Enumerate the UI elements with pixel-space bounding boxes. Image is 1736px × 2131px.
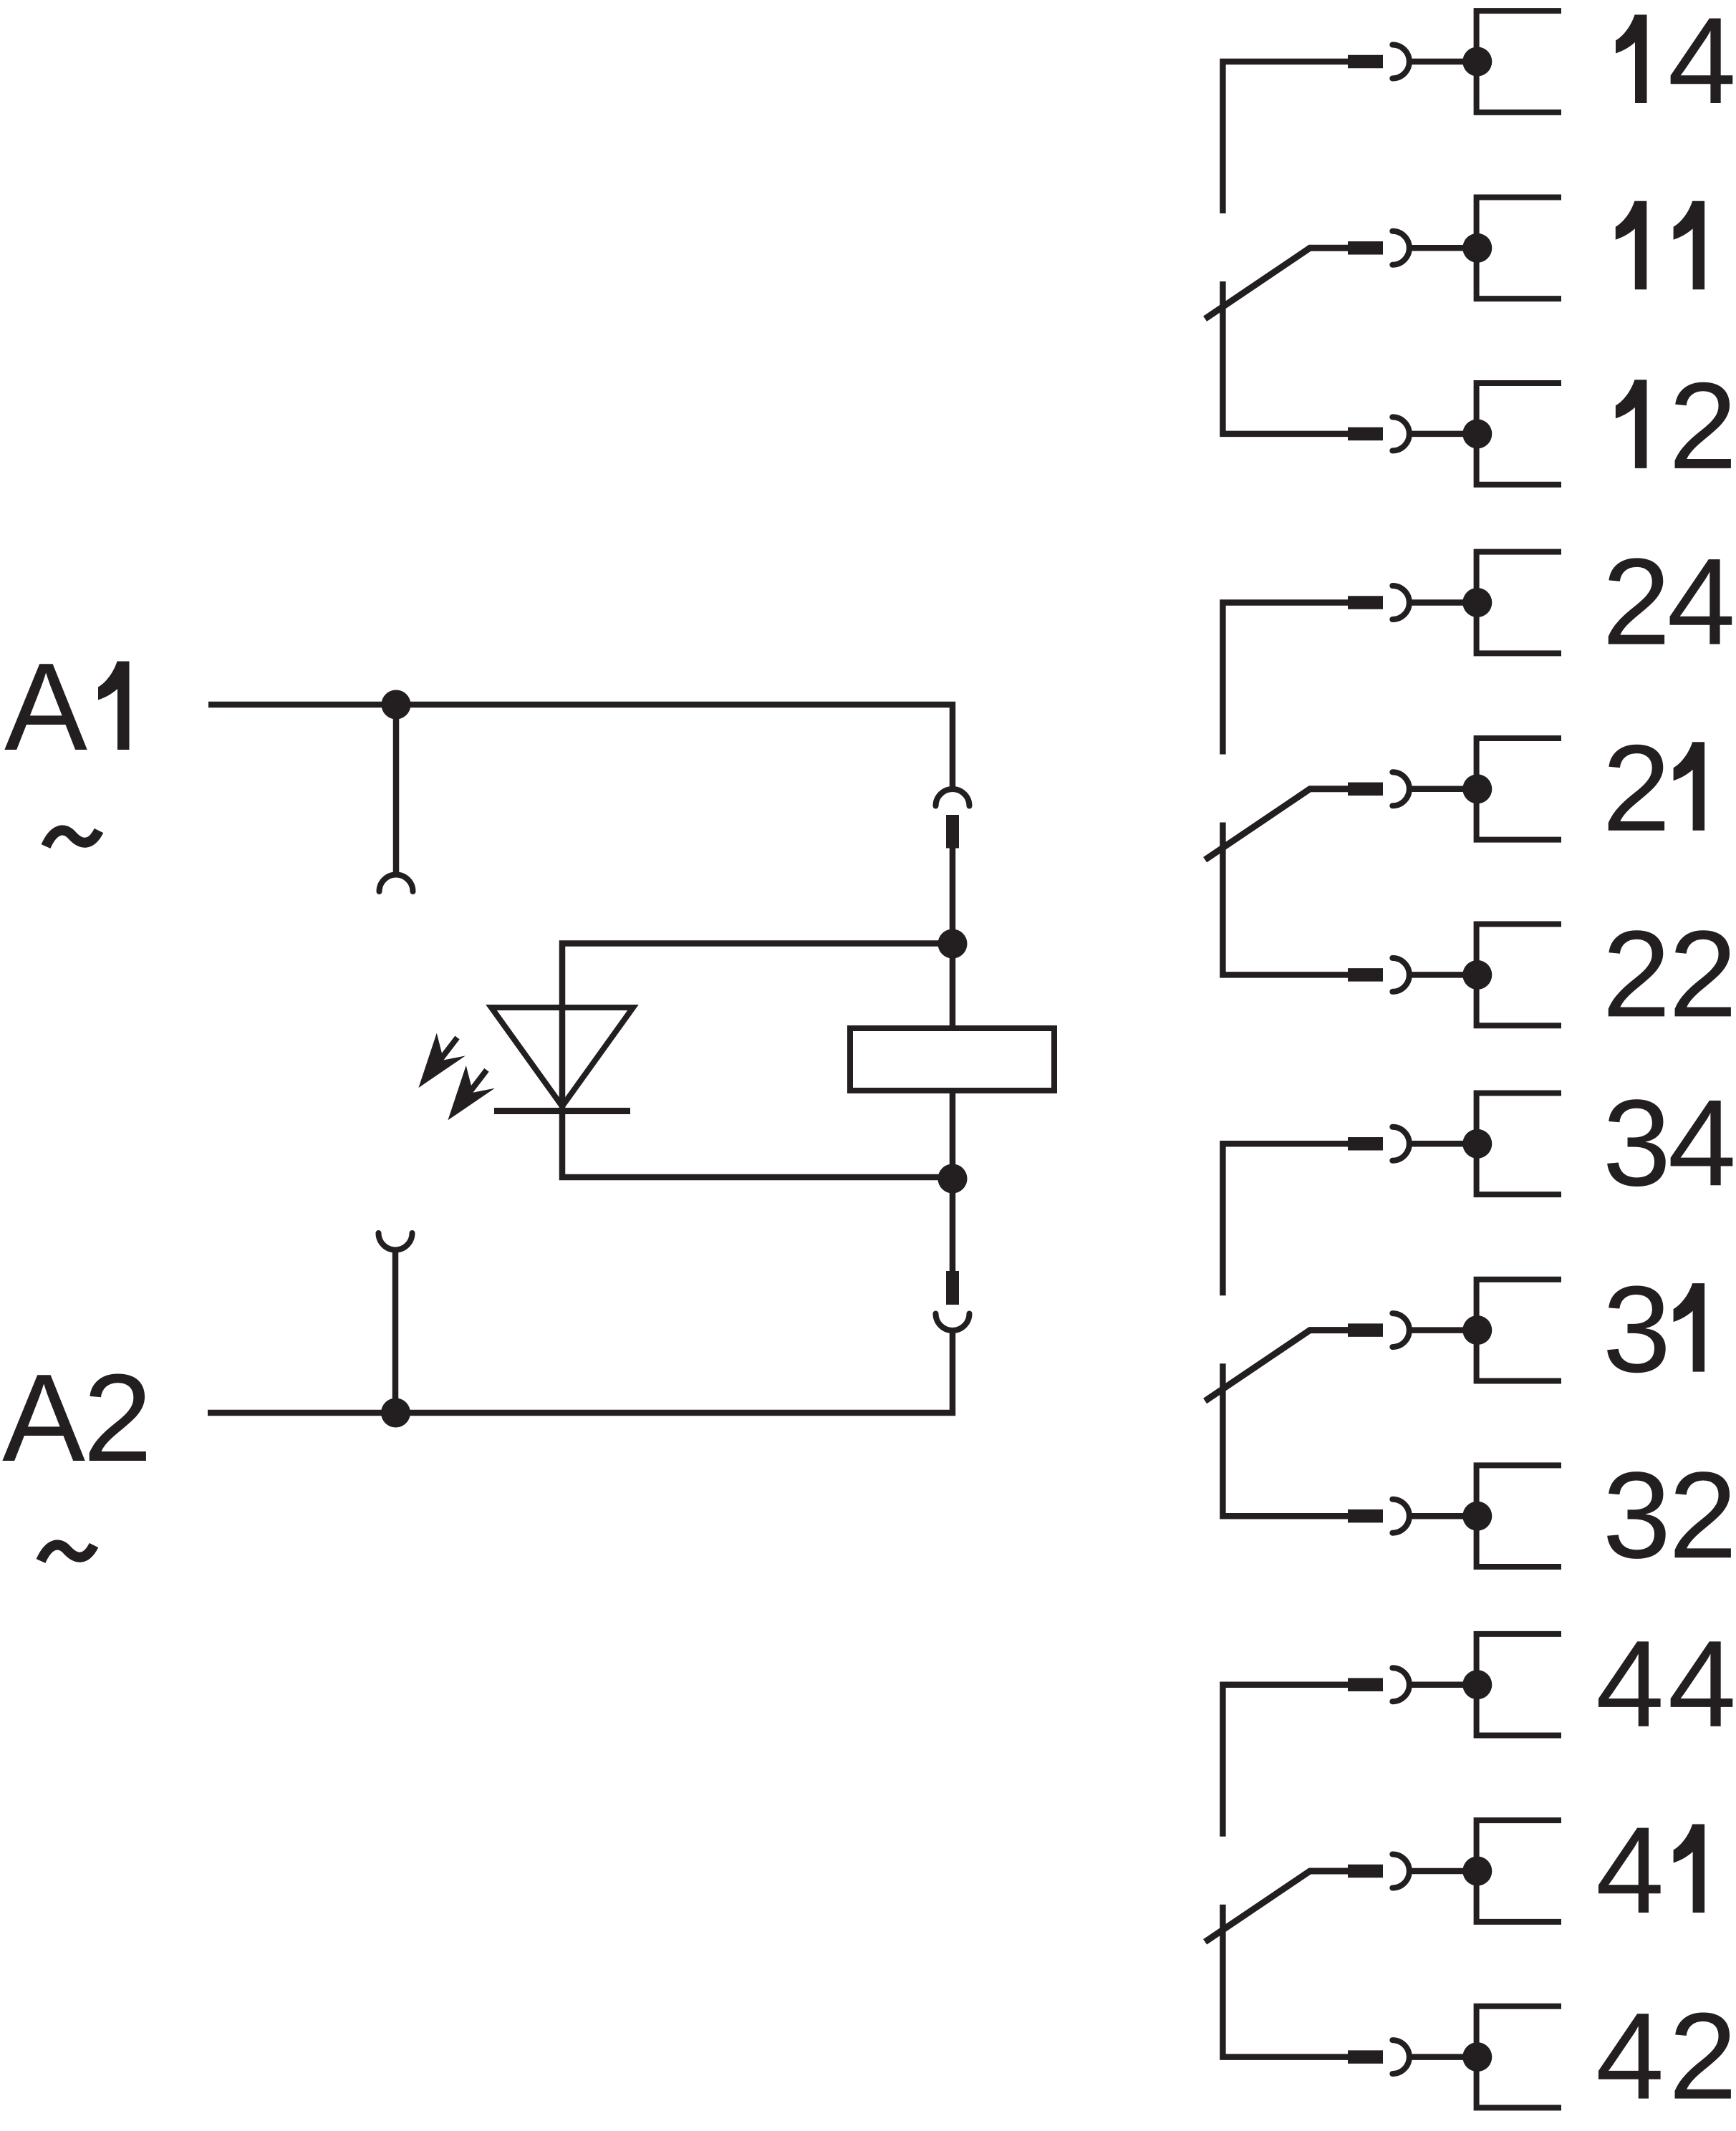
svg-text:3: 3 <box>1603 1261 1672 1398</box>
contact group 14/11/12: NO branch wire <box>1223 62 1351 213</box>
svg-text:2: 2 <box>1669 1446 1736 1584</box>
svg-text:2: 2 <box>1669 1988 1736 2125</box>
wire A1 rail to coil branch <box>208 705 953 789</box>
svg-text:2: 2 <box>1669 357 1736 495</box>
terminal label A1 <box>4 637 130 776</box>
LED light emission arrows <box>418 1033 495 1121</box>
AC symbol ~ under A2 <box>41 1545 94 1561</box>
svg-text:4: 4 <box>1596 1615 1664 1753</box>
NC branch wire (common line to 42) <box>1223 1905 1351 2057</box>
terminal 32 (pin, socket, junction, clamp) <box>1348 1465 1561 1567</box>
svg-text:4: 4 <box>1596 1802 1664 1939</box>
svg-text:A: A <box>2 1348 85 1487</box>
svg-text:2: 2 <box>1602 533 1671 671</box>
svg-text:A: A <box>4 637 87 776</box>
contact blade (common 31) <box>1205 1330 1351 1401</box>
terminal number 31 <box>1603 1261 1705 1398</box>
plug pin (coil bottom) <box>946 1271 959 1305</box>
svg-text:2: 2 <box>1669 905 1736 1043</box>
plug pin (coil top) <box>946 815 959 849</box>
terminal 34 (pin, socket, junction, clamp) <box>1348 1093 1561 1194</box>
terminal number 11 <box>1616 201 1704 290</box>
wire coil return to A2 rail <box>208 1330 953 1414</box>
svg-text:4: 4 <box>1668 0 1736 130</box>
terminal number 41 <box>1596 1802 1704 1939</box>
terminal 42 (pin, socket, junction, clamp) <box>1348 2006 1561 2108</box>
wire LED branch loop <box>562 944 953 1178</box>
socket arc (A1 stub) <box>380 875 413 892</box>
AC symbol ~ under A1 <box>46 830 99 846</box>
svg-text:2: 2 <box>83 1348 153 1487</box>
relay coil K1 <box>850 1028 1054 1091</box>
wire junction to coil <box>950 944 956 1028</box>
NC branch wire (common line to 12) <box>1223 281 1351 434</box>
terminal label A2 <box>2 1348 153 1487</box>
wire coil to bottom junction <box>950 1091 956 1179</box>
junction on A2 rail <box>381 1398 410 1428</box>
contact blade (common 21) <box>1205 789 1351 860</box>
terminal number 21 <box>1602 720 1704 857</box>
terminal 44 (pin, socket, junction, clamp) <box>1348 1634 1561 1736</box>
terminal 21 (pin, socket, junction, clamp) <box>1348 738 1561 840</box>
svg-text:2: 2 <box>1602 720 1671 857</box>
terminal number 44 <box>1596 1615 1736 1753</box>
terminal 22 (pin, socket, junction, clamp) <box>1348 924 1561 1026</box>
terminal number 24 <box>1602 533 1735 671</box>
junction LED bottom <box>938 1164 968 1194</box>
wire A2 test stub <box>392 1250 399 1413</box>
LED cathode bar <box>494 1108 630 1114</box>
socket arc (A2 stub) <box>379 1233 413 1250</box>
terminal number 42 <box>1596 1988 1736 2125</box>
svg-text:4: 4 <box>1596 1988 1664 2125</box>
terminal 12 (pin, socket, junction, clamp) <box>1348 383 1561 485</box>
wire pin to LED junction <box>950 848 956 944</box>
svg-text:4: 4 <box>1668 1615 1736 1753</box>
svg-text:2: 2 <box>1602 905 1671 1043</box>
junction on A1 rail <box>382 690 411 720</box>
svg-text:4: 4 <box>1667 533 1736 671</box>
terminal number 34 <box>1603 1074 1736 1212</box>
LED triangle <box>491 1007 633 1106</box>
terminal 24 (pin, socket, junction, clamp) <box>1348 552 1561 654</box>
wire junction to pin (coil bottom) <box>950 1179 956 1272</box>
svg-text:4: 4 <box>1668 1074 1736 1212</box>
socket arc (coil bottom) <box>936 1314 970 1331</box>
terminal number 32 <box>1603 1446 1736 1584</box>
terminal 14 (pin, socket, junction, clamp) <box>1348 11 1561 112</box>
terminal number 12 <box>1616 357 1736 495</box>
NC branch wire (common line to 22) <box>1223 823 1351 975</box>
NC branch wire (common line to 32) <box>1223 1363 1351 1516</box>
terminal 41 (pin, socket, junction, clamp) <box>1348 1820 1561 1922</box>
contact blade (common 11) <box>1205 248 1351 319</box>
terminal 31 (pin, socket, junction, clamp) <box>1348 1280 1561 1381</box>
wire A1 test stub <box>393 705 400 875</box>
socket arc (coil top) <box>936 789 970 806</box>
contact group 24/21/22: NO branch wire <box>1223 603 1351 755</box>
terminal number 22 <box>1602 905 1736 1043</box>
svg-text:3: 3 <box>1603 1446 1672 1584</box>
terminal 11 (pin, socket, junction, clamp) <box>1348 197 1561 299</box>
contact group 34/31/32: NO branch wire <box>1223 1144 1351 1295</box>
junction LED top <box>938 929 968 959</box>
svg-text:3: 3 <box>1603 1074 1672 1212</box>
contact group 44/41/42: NO branch wire <box>1223 1685 1351 1837</box>
contact blade (common 41) <box>1205 1871 1351 1942</box>
terminal number 14 <box>1616 0 1736 130</box>
